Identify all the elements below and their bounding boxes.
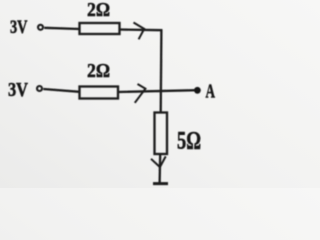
ground	[153, 182, 168, 185]
current arrow on top branch	[134, 23, 145, 40]
resistor R1 (2 ohm, top branch)	[80, 23, 120, 34]
node A terminal dot	[195, 88, 200, 93]
current arrow on middle branch	[135, 84, 146, 103]
label: R2 value 2Ω	[87, 60, 110, 82]
label: R1 value 2Ω	[87, 0, 110, 21]
label: 3V value of top voltage source	[10, 17, 28, 38]
wire: bottom source terminal to resistor R2	[43, 89, 79, 92]
svg-text:2Ω: 2Ω	[87, 0, 110, 21]
wire: vertical from top corner down through node to resistor R3	[160, 29, 163, 112]
wire: R1 to top-right corner	[120, 28, 163, 31]
label: R3 value 5Ω	[177, 128, 201, 155]
svg-text:5Ω: 5Ω	[177, 128, 201, 155]
resistor R3 (5 ohm, vertical branch)	[155, 113, 168, 155]
resistor R2 (2 ohm, middle branch)	[80, 87, 119, 99]
svg-text:2Ω: 2Ω	[87, 60, 110, 82]
label: 3V value of bottom voltage source	[8, 79, 28, 101]
wire: top source terminal to resistor R1	[44, 28, 79, 29]
svg-text:A: A	[206, 81, 216, 103]
terminal of bottom 3V source	[37, 86, 42, 91]
wire: R3 to ground	[158, 154, 161, 183]
current arrow on vertical branch (downward)	[151, 156, 166, 167]
wire: R2 through junction to node A	[118, 90, 197, 92]
svg-text:3V: 3V	[10, 17, 28, 38]
svg-text:3V: 3V	[8, 79, 28, 101]
label: node A	[206, 81, 216, 103]
terminal of top 3V source	[38, 25, 43, 30]
